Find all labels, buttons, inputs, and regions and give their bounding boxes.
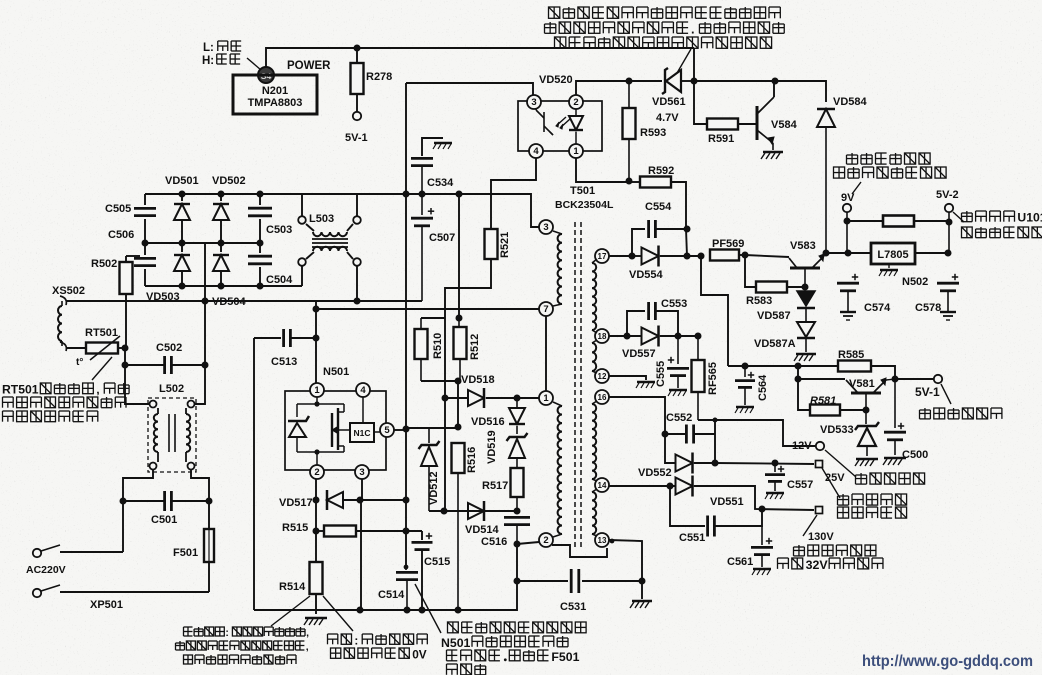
label POWER (287, 60, 331, 72)
capacitor C534 chassis (422, 138, 452, 156)
VD520 pin2 (569, 95, 583, 109)
svg-text:N501: N501 (441, 636, 471, 650)
capacitor C515 electrolytic (412, 531, 433, 610)
wire x517 down to rail (516, 544, 517, 610)
junction C501 left (120, 498, 127, 505)
svg-text:C516: C516 (481, 536, 507, 548)
label C574 (864, 302, 891, 314)
diode VD584 (817, 109, 835, 253)
svg-text:4: 4 (360, 385, 366, 396)
junction C551 left (667, 483, 674, 490)
junction C578 top (945, 250, 952, 257)
svg-text:,: , (306, 627, 309, 639)
svg-text:T501: T501 (570, 185, 595, 197)
label VD533 (820, 424, 854, 436)
resistor R581 (798, 379, 866, 416)
svg-text:5: 5 (384, 425, 390, 436)
wire R510/R512 bottoms (421, 381, 458, 427)
zener VD519 (507, 433, 528, 468)
svg-text:N502: N502 (902, 276, 928, 288)
svg-text:F501: F501 (551, 650, 579, 664)
leader label to S4 (247, 58, 261, 70)
terminal 130V (816, 507, 823, 514)
label C514 (378, 589, 405, 601)
VD520 phototransistor (536, 108, 553, 135)
wire C552 right to VD552 line (714, 420, 716, 463)
svg-text:R583: R583 (746, 295, 772, 307)
label R278 (366, 71, 392, 83)
resistor RF565 (692, 336, 705, 420)
svg-text:VD557: VD557 (622, 348, 656, 360)
diode VD504 (213, 243, 229, 286)
annotation 25V note2 (838, 507, 907, 518)
capacitor C504 (248, 243, 272, 286)
wire 25V line (715, 463, 814, 464)
svg-text::: : (354, 633, 358, 647)
junction x316 y309 (313, 306, 320, 313)
svg-text:14: 14 (598, 481, 607, 490)
junction bottom rail VD503 (179, 283, 186, 290)
resistor R592 (629, 177, 686, 230)
svg-text:RT501: RT501 (85, 327, 118, 339)
label R593 (640, 127, 666, 139)
svg-text:C500: C500 (902, 449, 928, 461)
junction 5V-2 (946, 219, 953, 226)
svg-text:R516: R516 (466, 447, 478, 473)
resistor R512 (454, 318, 467, 381)
wire L503 to main vertical (357, 194, 406, 216)
svg-text:PF569: PF569 (712, 238, 744, 250)
svg-text:t°: t° (76, 357, 83, 368)
svg-text:XS502: XS502 (52, 285, 85, 297)
svg-text:R585: R585 (838, 349, 864, 361)
annotation breakdown note4 (447, 664, 486, 675)
label C504 (266, 274, 293, 286)
T501 pin16 (595, 390, 609, 404)
label R583 (746, 295, 772, 307)
junction y428 x458 (455, 424, 462, 431)
junction VD533 top (863, 407, 870, 414)
wire bridge bottom rail (145, 285, 302, 287)
leader 9V note (852, 182, 861, 194)
junction VD584-V583e (823, 250, 830, 257)
junction rail-R516 (455, 607, 462, 614)
degauss coil (58, 301, 62, 346)
resistor 9V-5V2 link (847, 216, 949, 227)
junction mid rail C505 (142, 240, 149, 247)
label C531 (560, 601, 586, 613)
diode VD551 (676, 476, 815, 511)
junction C516 bottom (514, 541, 521, 548)
transistor V581 (846, 378, 895, 410)
wire opto pin1 down (576, 158, 629, 182)
svg-text:32V: 32V (806, 558, 829, 572)
svg-text:C531: C531 (560, 601, 586, 613)
T501 secondary winding 14-13 (592, 489, 597, 536)
label 9V (841, 192, 855, 204)
junction mid rail VD503 (179, 240, 186, 247)
wire left rail x254 (253, 338, 255, 610)
leader RT501 note (92, 357, 112, 380)
label C557 (787, 479, 813, 491)
plug XP501 terminal bottom (33, 585, 209, 597)
terminal 12V (816, 442, 824, 450)
svg-text:C502: C502 (156, 342, 182, 354)
svg-text:VD554: VD554 (629, 269, 664, 281)
wire bridge to L503 top (301, 194, 303, 216)
label VD501 (165, 175, 199, 187)
svg-text:R517: R517 (482, 480, 508, 492)
junction y301 L502 (202, 298, 209, 305)
junction VD518 right (514, 395, 540, 402)
svg-text:AC220V: AC220V (26, 564, 66, 576)
svg-text:XP501: XP501 (90, 599, 123, 611)
T501 pin17 (595, 249, 609, 263)
svg-text:R521: R521 (499, 232, 511, 258)
label PF569 (712, 238, 744, 250)
svg-text:C578: C578 (915, 302, 941, 314)
annotation R514 note1 (184, 627, 310, 639)
annotation 5V-2 note1 (962, 211, 1042, 225)
junction C534 bottom (419, 191, 426, 198)
N501 pin4 (356, 383, 370, 397)
label R515 (282, 522, 308, 534)
svg-text:13: 13 (598, 536, 607, 545)
label VD502 (212, 175, 246, 187)
junction 12V-C552 (713, 418, 718, 423)
svg-text:VD551: VD551 (710, 496, 744, 508)
label R591 (708, 133, 734, 145)
junction pin13-y581 (639, 578, 646, 585)
leader 0V note (323, 596, 353, 631)
T501 pin14 (595, 478, 609, 492)
junction V584 collector (772, 78, 779, 85)
leader R514 note (271, 596, 310, 626)
svg-text:VD514: VD514 (465, 524, 500, 536)
svg-text:3: 3 (359, 467, 364, 478)
svg-text:2: 2 (314, 467, 319, 478)
VD520 pin1 (569, 144, 583, 158)
transistor V583 (789, 253, 826, 289)
label VD587 (757, 310, 791, 322)
svg-text:R502: R502 (91, 258, 117, 270)
capacitor C502 (125, 356, 205, 374)
wire power-on rail from N201 to regulator area (266, 48, 694, 67)
wire bridge to L503 bottom (301, 266, 303, 286)
junction V581 emitter node (892, 376, 899, 383)
label 5V-1 (R278) (345, 132, 368, 144)
junction bottom rail C504b (257, 283, 264, 290)
junction 130V line (759, 506, 766, 513)
label C500 (902, 449, 928, 461)
wire pin5 out (394, 429, 406, 431)
wire C516 to pin2 T501 (517, 542, 539, 544)
label C505 (105, 203, 131, 215)
switch S4 (258, 67, 274, 83)
wire C502R to L502 top-right (195, 365, 205, 404)
svg-text:C553: C553 (661, 298, 687, 310)
svg-text:VD519: VD519 (486, 430, 498, 464)
leader note to VD561 (677, 49, 691, 73)
wire rail y366 (728, 365, 838, 367)
junction y381 (455, 378, 462, 385)
resistor R593 (623, 81, 636, 181)
label RF565 (707, 362, 719, 395)
junction x517 y581 (514, 578, 521, 585)
label C516 (481, 536, 507, 548)
junction C501 right (206, 498, 213, 505)
svg-text:R278: R278 (366, 71, 392, 83)
wire L7805 out (915, 252, 948, 254)
junction x459 y318 (456, 315, 463, 322)
resistor R515 (316, 526, 422, 537)
junction y366 C564 (742, 363, 749, 370)
junction C554 right (684, 226, 691, 233)
label N502 (902, 276, 928, 288)
capacitor C564 electrolytic (735, 366, 755, 413)
wire pin13 out (609, 540, 642, 599)
annotation 9V note2 (834, 167, 947, 178)
wire rail y194 right (302, 194, 539, 227)
label C515 (424, 556, 450, 568)
capacitor C555 electrolytic (667, 336, 689, 396)
label VD519 (486, 430, 498, 464)
zener VD533 (855, 410, 879, 466)
junction V583 base-R583 (802, 284, 809, 291)
capacitor C574 (837, 274, 859, 320)
annotation breakdown note3 (447, 650, 580, 664)
resistor R514 (304, 531, 327, 625)
wire pin12 ground (609, 376, 655, 388)
wire degauss line y301 (66, 300, 422, 302)
watermark URL (862, 653, 1033, 670)
svg-text:N1C: N1C (353, 428, 370, 438)
annotation 5V-2 note2 (962, 227, 1042, 238)
filter L503 (298, 216, 361, 266)
junction x406 y500 (403, 497, 410, 504)
svg-text:R512: R512 (469, 334, 481, 360)
resistor R278 (351, 48, 364, 112)
annotation RT501 line2 (3, 397, 127, 408)
svg-text:R514: R514 (279, 581, 306, 593)
junction 9V (844, 218, 851, 225)
label C561 (727, 556, 753, 568)
label XP501 (90, 599, 123, 611)
resistor R521 (445, 158, 536, 318)
wire x459 from rail194 (458, 194, 460, 318)
label C513 (271, 356, 297, 368)
svg-text:U101: U101 (1017, 211, 1042, 225)
junction L503 y301 (354, 298, 361, 305)
T501 primary winding a (553, 231, 562, 306)
svg-text:VD520: VD520 (539, 74, 573, 86)
label R510 (432, 333, 444, 359)
wire VD561 out right (694, 80, 775, 82)
IC N501 box (285, 391, 386, 470)
junction RF565 top (695, 333, 702, 340)
label VD584 (833, 96, 868, 108)
wire PF569 to V583 (745, 255, 789, 257)
svg-text:R593: R593 (640, 127, 666, 139)
T501 pin2 (539, 533, 553, 547)
T501 secondary winding 16-14 (592, 401, 597, 481)
label 5V-1 main (915, 385, 940, 399)
ground pin13 (630, 601, 652, 608)
VD520 LED (569, 109, 583, 144)
diode VD503 (174, 243, 190, 286)
junction y511 x517 (514, 508, 521, 515)
annotation R514 note3 (184, 655, 297, 664)
diode VD552 (676, 453, 715, 474)
wire bridge top rail (145, 193, 302, 195)
label C551 (679, 532, 705, 544)
junction R515-x406 (403, 528, 410, 535)
wire R592col join (686, 229, 687, 256)
label C578 (915, 302, 941, 314)
N501 pin2 (310, 465, 324, 479)
wire pin16 out (609, 397, 665, 434)
svg-text:C513: C513 (271, 356, 297, 368)
label L503 (309, 213, 334, 225)
leader breakdown note (415, 584, 441, 633)
svg-text:R592: R592 (648, 165, 674, 177)
label L:开机 / H:待机 (202, 41, 241, 67)
annotation 130V note1 (794, 545, 876, 556)
svg-text:7: 7 (543, 304, 548, 315)
annotation breakdown note1 (448, 622, 587, 633)
junction C513 right (313, 335, 320, 342)
zener VD561 (629, 68, 694, 94)
wire 5V-1 out (895, 378, 934, 380)
transistor V584 (757, 81, 783, 159)
svg-text:2: 2 (573, 97, 578, 108)
label VD503 (146, 291, 180, 303)
svg-text:H:: H: (202, 55, 214, 67)
leader 130V note (803, 515, 817, 536)
svg-text:C551: C551 (679, 532, 705, 544)
junction R593 top (626, 78, 633, 85)
svg-text:VD504: VD504 (212, 296, 247, 308)
wire pin2 down (315, 479, 317, 531)
svg-text:0V: 0V (412, 647, 427, 661)
IC N201 TMPA8803 (233, 75, 317, 114)
svg-text:RF565: RF565 (707, 362, 719, 395)
wire main vertical x406 (405, 83, 407, 567)
resistor R591 (707, 119, 757, 130)
svg-text:C561: C561 (727, 556, 753, 568)
svg-text:C505: C505 (105, 203, 131, 215)
leader 25V note (822, 468, 840, 498)
junction top rail VD502 (218, 191, 225, 198)
svg-text:C515: C515 (424, 556, 450, 568)
terminal 5V-1 main (934, 375, 942, 383)
N501 pin1 (310, 383, 324, 397)
label N501 (323, 366, 349, 378)
junction mid rail VD504 (218, 240, 225, 247)
label C501 (151, 514, 177, 526)
label C534 (427, 177, 454, 189)
label XS502 (52, 285, 85, 297)
label VD514 (465, 524, 500, 536)
svg-text:C507: C507 (429, 232, 455, 244)
optocoupler VD520 box (518, 101, 602, 151)
plug XP501 terminal top (33, 545, 123, 557)
svg-text:1: 1 (314, 385, 320, 396)
capacitor C552 (665, 425, 715, 444)
annotation zener note line2 (545, 21, 785, 36)
svg-text:C555: C555 (655, 361, 667, 387)
svg-text:R581: R581 (810, 395, 836, 407)
T501 pin7 (539, 302, 553, 316)
wire x445 vertical (444, 318, 446, 511)
label VD504 (212, 296, 247, 308)
wire 9V takeoff (701, 256, 728, 366)
wire L503 bottom to y301 (356, 266, 358, 301)
label C555 (655, 361, 667, 387)
svg-text:L:: L: (203, 42, 214, 54)
capacitor C554 (632, 220, 687, 256)
capacitor C531 (571, 569, 642, 593)
wire L502 bottom-right down (191, 470, 209, 529)
label VD520 (539, 74, 573, 86)
wire x316 down to N501 pin1 (315, 301, 317, 383)
svg-text::: : (225, 627, 229, 639)
label VD561 (652, 96, 686, 124)
svg-text:VD552: VD552 (638, 467, 672, 479)
capacitor C551 (670, 486, 762, 537)
label VD557 (622, 348, 656, 360)
annotation 0V note1 (328, 633, 428, 647)
svg-text:,: , (306, 641, 309, 653)
junction VD557 out (675, 333, 682, 340)
label V581 (849, 378, 875, 390)
VD520 light arrows (556, 117, 570, 129)
wire 12V line (698, 420, 815, 446)
label VD551 (710, 496, 744, 508)
label R521 (499, 232, 511, 258)
annotation 9V note1 (847, 153, 931, 164)
junction PF569 left (698, 253, 705, 260)
junction rail-pin3col (357, 607, 364, 614)
diode VD514 (441, 501, 485, 521)
diode VD554 (632, 246, 701, 267)
label R581 (810, 395, 836, 407)
thermistor RT501 (66, 336, 125, 368)
annotation 12V note (856, 473, 925, 484)
svg-text:12: 12 (598, 372, 607, 381)
svg-text:C574: C574 (864, 302, 891, 314)
svg-text:N501: N501 (323, 366, 349, 378)
junction R593 bottom (626, 178, 633, 185)
label VD516 (471, 416, 505, 428)
junction y194 x459 (456, 191, 463, 198)
junction C502 right (202, 362, 209, 369)
junction VD517 right (357, 497, 364, 504)
svg-text:C504: C504 (266, 274, 293, 286)
annotation R514 note2 (176, 641, 309, 653)
svg-text:5V-1: 5V-1 (915, 385, 940, 399)
diode VD517 (327, 490, 360, 510)
svg-text:V583: V583 (790, 240, 816, 252)
diode VD516 (509, 398, 525, 434)
junction rail-C515 (419, 607, 426, 614)
svg-text:RT501: RT501 (2, 383, 39, 397)
label C507 (429, 232, 455, 244)
connector XS502 hooks (60, 296, 66, 351)
N501 internal mosfet (332, 404, 350, 452)
junction C557 top (772, 460, 779, 467)
label RT501 (85, 327, 118, 339)
